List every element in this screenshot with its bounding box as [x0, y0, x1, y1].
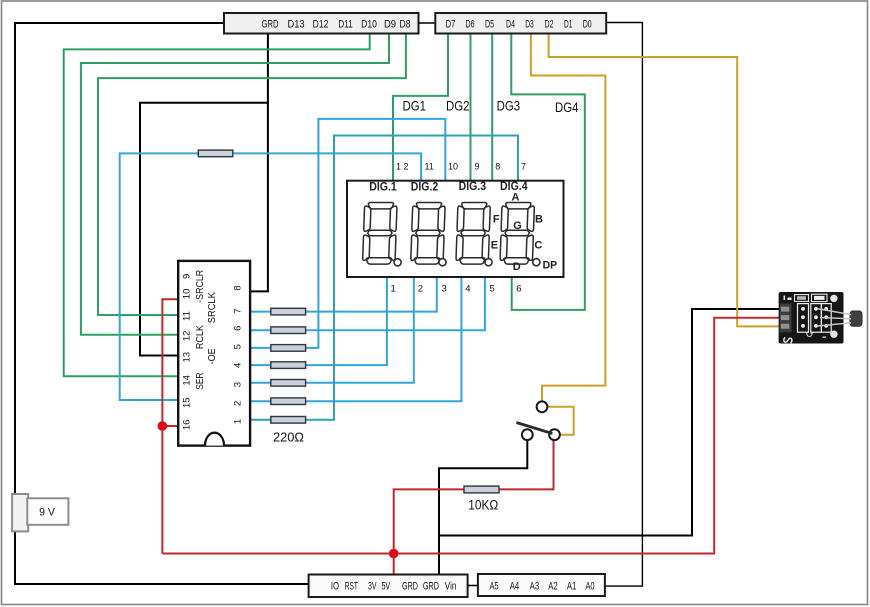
svg-text:16: 16: [182, 420, 193, 431]
sensor pad column 2: [811, 304, 822, 333]
wire 5V net IC pins 10 and 16 down to 5V pin out to sensor VCC and 10K resistor to button: [162, 299, 783, 574]
svg-text:DG3: DG3: [497, 98, 521, 114]
wire IC pin 6 to display pin 5: [250, 277, 485, 330]
button lever: [516, 423, 552, 434]
svg-text:4: 4: [465, 284, 470, 295]
svg-text:SRCLK: SRCLK: [207, 292, 218, 323]
resistor 220 ohm R2: [271, 308, 306, 315]
svg-text:5: 5: [233, 344, 244, 349]
svg-text:11: 11: [425, 162, 434, 172]
svg-text:7: 7: [521, 162, 526, 172]
wire GND rail from GRD header left down left edge along bottom to IO box: [15, 23, 309, 584]
svg-text:8: 8: [233, 285, 244, 290]
button left contact: [522, 429, 533, 440]
svg-text:D11: D11: [338, 18, 353, 30]
svg-text:D2: D2: [545, 18, 554, 30]
sensor PCB: [779, 292, 844, 344]
svg-text:DIG.2: DIG.2: [411, 180, 439, 194]
svg-text:3: 3: [442, 284, 447, 295]
header box IO RST 3V 5V GRD GRD Vin: [309, 575, 468, 598]
svg-text:10: 10: [182, 289, 193, 300]
svg-text:5: 5: [490, 284, 495, 295]
sensor S label: [783, 337, 792, 344]
wire D5 to display pin 8 DIG3: [491, 34, 493, 181]
svg-text:RST: RST: [345, 580, 358, 592]
svg-text:DG2: DG2: [446, 98, 470, 114]
wire D9 to IC pin 12 RCLK: [81, 34, 389, 335]
resistor 220 ohm R3: [271, 327, 306, 334]
sensor silkscreen resistor 2: [812, 294, 828, 301]
svg-text:11: 11: [182, 311, 193, 321]
wire D4 to display pin 6 DIG4: [511, 34, 585, 310]
svg-text:D3: D3: [525, 18, 534, 30]
sensor mounting hole bottom: [830, 331, 837, 338]
sensor legs: [818, 309, 851, 315]
cyan wires: [120, 119, 485, 401]
svg-text:E: E: [491, 240, 498, 252]
svg-text:GRD: GRD: [262, 18, 279, 30]
wire link between header boxes: [419, 22, 436, 24]
svg-text:C: C: [534, 239, 542, 251]
IC notch: [205, 433, 224, 446]
resistor 220 ohm R5: [271, 362, 306, 369]
svg-text:9: 9: [475, 162, 480, 172]
svg-text:DP: DP: [543, 259, 558, 271]
svg-text:12: 12: [182, 331, 193, 342]
sensor pad column 1: [798, 304, 809, 333]
decimal point 3: [485, 259, 492, 266]
resistor 220 ohm R1 on segment A wire: [198, 150, 233, 157]
yellow wires: [531, 34, 783, 435]
resistor 10K R9: [464, 486, 499, 493]
wire IC pin 2 to display pin 4: [250, 277, 461, 401]
sensor mounting hole top: [830, 295, 837, 302]
svg-text:IO: IO: [331, 580, 340, 592]
red wires: [162, 299, 783, 574]
svg-text:15: 15: [182, 397, 193, 408]
svg-text:A2: A2: [548, 580, 557, 592]
wire D8 to IC pin 11 SRCLK: [98, 34, 406, 316]
button right contact: [549, 429, 560, 440]
svg-text:4: 4: [233, 363, 244, 368]
svg-text:7: 7: [233, 308, 244, 313]
svg-text:D13: D13: [288, 18, 305, 30]
svg-text:Vin: Vin: [445, 580, 457, 592]
wire IC pin 3 to display pin 2: [250, 277, 414, 383]
wire D10 to IC pin 14 SER: [64, 34, 370, 377]
junction node at IC pin 16: [158, 422, 167, 431]
svg-text:2: 2: [418, 284, 423, 295]
wire D6 to display pin 9 DIG2: [470, 34, 472, 181]
svg-text:A1: A1: [567, 580, 577, 592]
sensor TO-92 body: [850, 311, 862, 326]
digit 1: [363, 203, 398, 265]
svg-text:1 2: 1 2: [396, 162, 409, 172]
svg-text:2: 2: [233, 401, 244, 406]
wire IC pin 1 to display pin 7 teal: [250, 136, 518, 420]
svg-text:-OE: -OE: [207, 348, 218, 364]
svg-text:220Ω: 220Ω: [273, 430, 304, 445]
svg-text:1: 1: [391, 284, 396, 295]
svg-text:A5: A5: [489, 580, 498, 592]
svg-text:1: 1: [233, 419, 244, 424]
sensor pin header: [780, 303, 792, 332]
digit 3: [456, 203, 491, 265]
svg-text:9 V: 9 V: [39, 506, 55, 518]
decimal point 2: [439, 259, 446, 266]
resistor 220 ohm R8: [271, 417, 306, 424]
battery 9V: [12, 494, 68, 531]
svg-text:D8: D8: [400, 18, 411, 30]
svg-text:D12: D12: [313, 18, 329, 30]
wire IC pin 7 to display pin 3: [250, 277, 437, 312]
wire IC pin 5 to display pin 10: [250, 119, 445, 348]
svg-text:A3: A3: [530, 580, 540, 592]
svg-text:F: F: [493, 213, 500, 225]
svg-text:8: 8: [495, 162, 500, 172]
svg-text:13: 13: [182, 352, 193, 363]
svg-text:3V: 3V: [368, 580, 377, 592]
svg-text:D: D: [513, 261, 521, 273]
svg-text:GRD: GRD: [402, 580, 418, 592]
svg-text:A: A: [512, 192, 520, 204]
digit 4: [500, 203, 535, 265]
wire D header right edge to A header right edge: [605, 23, 642, 587]
sensor silk marks: [784, 296, 786, 301]
decimal point 4: [533, 259, 540, 266]
op IC 74HC595 shift register U1: [178, 261, 250, 446]
svg-text:3: 3: [233, 382, 244, 387]
green wires: [64, 34, 585, 377]
wire button left contact to GRD pin with branch to sensor GND: [439, 309, 783, 575]
svg-text:14: 14: [182, 375, 193, 386]
svg-text:DIG.3: DIG.3: [459, 179, 487, 193]
svg-text:D1: D1: [564, 18, 572, 30]
digit 2: [411, 203, 446, 265]
resistor 220 ohm R4: [271, 345, 306, 352]
sensor pad column 3: [821, 304, 831, 333]
svg-text:10: 10: [448, 162, 458, 172]
svg-text:DG1: DG1: [403, 98, 427, 114]
svg-text:6: 6: [233, 326, 244, 331]
svg-text:6: 6: [516, 284, 521, 295]
wire D2 to sensor signal pin: [549, 34, 783, 327]
wire IC pin 4 to display pin 1: [250, 277, 387, 365]
svg-text:DIG.1: DIG.1: [369, 180, 397, 194]
svg-text:10KΩ: 10KΩ: [468, 498, 498, 513]
sensor silkscreen resistor 1: [795, 295, 809, 302]
svg-text:D9: D9: [384, 18, 396, 30]
svg-text:D10: D10: [361, 18, 377, 30]
svg-text:A4: A4: [510, 580, 520, 592]
decimal point 1: [394, 259, 401, 266]
wire D7 to display pin 12 DIG1: [393, 34, 448, 181]
resistor 220 ohm R6: [271, 380, 306, 387]
svg-text:D6: D6: [466, 18, 475, 30]
svg-text:A0: A0: [585, 580, 594, 592]
svg-text:RCLK: RCLK: [195, 325, 206, 349]
wire button top contact to right contact: [548, 407, 574, 435]
wire link between bottom header boxes: [468, 585, 478, 587]
svg-text:DG4: DG4: [555, 99, 579, 115]
display DS1 4-digit 7-segment module: [347, 179, 564, 277]
push button S1: [516, 401, 559, 440]
svg-text:GRD: GRD: [423, 580, 439, 592]
svg-text:D7: D7: [446, 18, 456, 30]
svg-text:G: G: [513, 220, 522, 232]
wire IC pin 15 QA via resistor R1 to display pin 11 segment A: [120, 153, 421, 400]
wire GRD pin to IC pin 8 with branch to pin 13 OE: [140, 34, 268, 356]
sensor module KY-001 DS18B20: [779, 292, 862, 344]
svg-text:-SRCLR: -SRCLR: [195, 270, 206, 303]
display top pin numbers 12 11 10 9 8 7: [396, 162, 526, 172]
button top contact: [537, 401, 548, 412]
svg-text:9: 9: [182, 274, 193, 279]
header box A5-A0: [478, 574, 605, 596]
svg-text:B: B: [535, 214, 543, 226]
svg-text:SER: SER: [195, 373, 206, 390]
junction node on 5V rail: [389, 549, 398, 558]
svg-text:5V: 5V: [381, 580, 390, 592]
svg-text:D5: D5: [485, 18, 494, 30]
wire D3 to push button top contact: [531, 34, 606, 402]
svg-text:D4: D4: [506, 18, 515, 30]
display bottom pin numbers 1-6: [391, 284, 522, 295]
header box D7-D0: [435, 13, 606, 34]
resistor 220 ohm R7: [271, 398, 306, 405]
svg-text:D0: D0: [583, 18, 592, 30]
header box GRD D13-D8: [224, 13, 419, 34]
